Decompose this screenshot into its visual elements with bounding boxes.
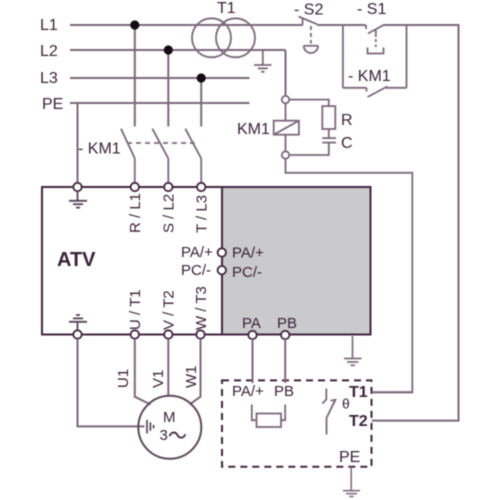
svg-text:S / L2: S / L2 <box>161 194 178 233</box>
svg-text:PE: PE <box>339 449 360 466</box>
svg-text:V / T2: V / T2 <box>161 290 178 330</box>
svg-text:L2: L2 <box>40 43 58 60</box>
svg-text:PA/+: PA/+ <box>181 244 213 261</box>
svg-text:R: R <box>341 112 353 129</box>
svg-text:U / T1: U / T1 <box>127 289 144 330</box>
svg-text:L3: L3 <box>40 70 58 87</box>
svg-text:PC/-: PC/- <box>232 264 262 281</box>
svg-text:PB: PB <box>274 383 294 400</box>
svg-text:PA/+: PA/+ <box>232 245 264 262</box>
svg-text:T1: T1 <box>217 0 236 17</box>
svg-text:L1: L1 <box>40 17 58 34</box>
svg-text:- S1: - S1 <box>357 1 386 18</box>
svg-text:T / L3: T / L3 <box>194 195 211 233</box>
svg-text:- KM1: - KM1 <box>78 141 121 158</box>
svg-text:W / T3: W / T3 <box>193 286 210 330</box>
svg-text:PA/+: PA/+ <box>232 383 264 400</box>
svg-text:V1: V1 <box>150 370 167 388</box>
svg-text:KM1: KM1 <box>237 121 270 138</box>
svg-text:PA: PA <box>242 315 261 332</box>
svg-text:W1: W1 <box>183 366 200 389</box>
svg-text:- S2: - S2 <box>294 2 323 19</box>
svg-text:R / L1: R / L1 <box>127 193 144 233</box>
svg-text:U1: U1 <box>115 369 132 388</box>
svg-text:M: M <box>163 409 176 426</box>
svg-text:ATV: ATV <box>57 249 96 271</box>
svg-text:PB: PB <box>277 315 297 332</box>
svg-text:3: 3 <box>160 427 168 444</box>
svg-text:T1: T1 <box>349 384 368 401</box>
svg-text:- KM1: - KM1 <box>348 68 391 85</box>
svg-text:PE: PE <box>42 96 63 113</box>
svg-text:C: C <box>341 135 353 152</box>
svg-text:PC/-: PC/- <box>181 262 211 279</box>
svg-text:T2: T2 <box>349 413 368 430</box>
